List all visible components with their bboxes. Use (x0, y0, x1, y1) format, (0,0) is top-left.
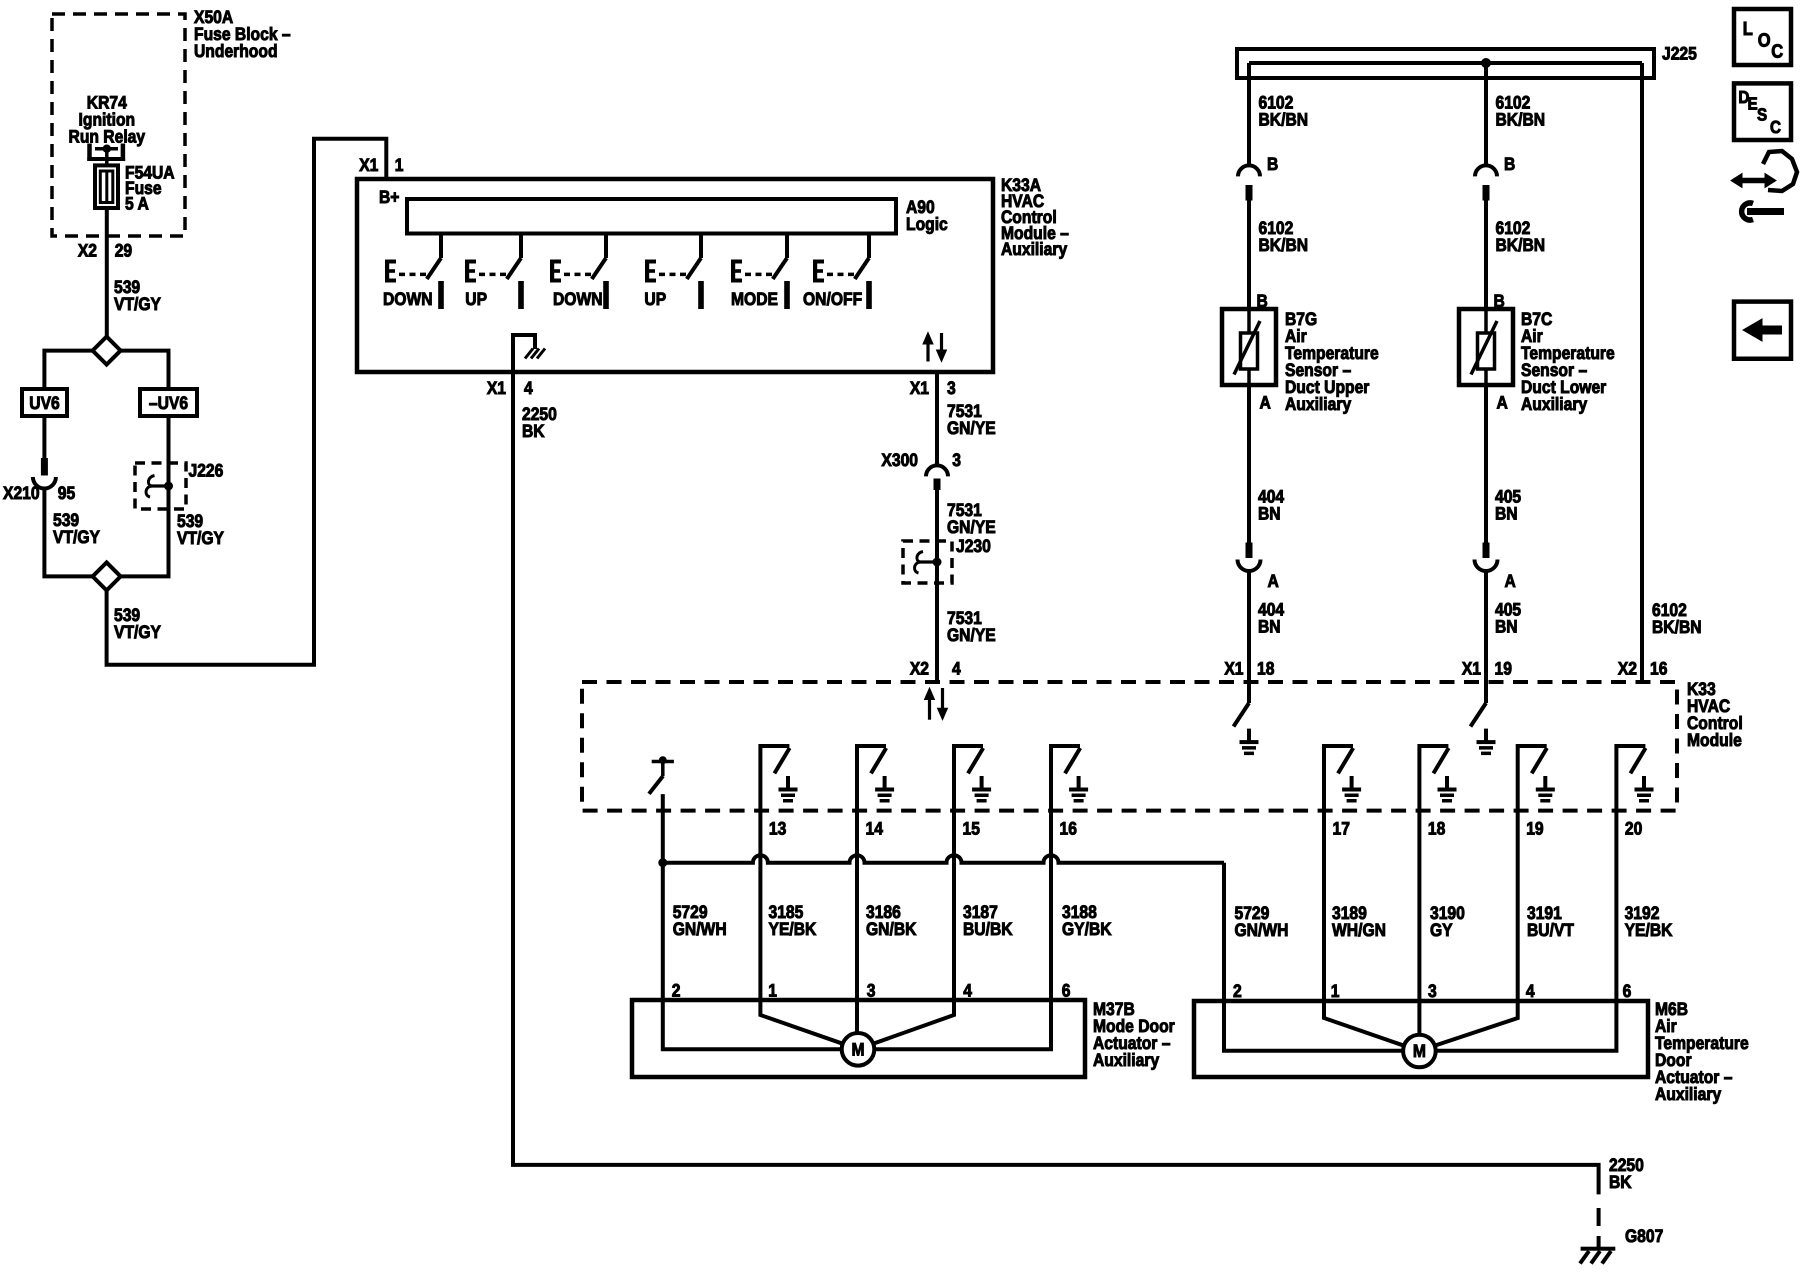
svg-text:S: S (1757, 105, 1767, 125)
svg-text:16: 16 (1650, 658, 1667, 678)
svg-text:E: E (1748, 94, 1758, 114)
svg-text:A: A (1497, 392, 1508, 412)
svg-text:WH/GN: WH/GN (1332, 920, 1386, 940)
svg-text:B+: B+ (379, 187, 399, 207)
svg-text:B: B (1504, 154, 1515, 174)
svg-text:19: 19 (1495, 658, 1512, 678)
svg-text:C: C (1770, 117, 1781, 137)
svg-text:VT/GY: VT/GY (114, 294, 161, 314)
svg-text:BK: BK (1609, 1172, 1632, 1192)
svg-text:BK/BN: BK/BN (1496, 235, 1546, 255)
svg-text:GN/YE: GN/YE (947, 517, 996, 537)
svg-text:4: 4 (524, 378, 533, 398)
svg-text:2: 2 (1233, 981, 1242, 1001)
svg-text:Auxiliary: Auxiliary (1655, 1084, 1721, 1104)
svg-text:16: 16 (1060, 818, 1077, 838)
svg-text:18: 18 (1428, 818, 1445, 838)
svg-text:J225: J225 (1662, 43, 1697, 63)
svg-text:G807: G807 (1625, 1226, 1663, 1246)
svg-text:13: 13 (769, 818, 786, 838)
svg-text:GN/WH: GN/WH (673, 919, 727, 939)
svg-text:UP: UP (465, 289, 487, 309)
svg-text:O: O (1758, 31, 1771, 52)
svg-text:A: A (1505, 571, 1516, 591)
svg-text:14: 14 (866, 818, 883, 838)
svg-text:M: M (851, 1039, 864, 1059)
svg-text:5 A: 5 A (125, 194, 149, 214)
svg-text:3: 3 (952, 450, 961, 470)
svg-text:18: 18 (1257, 658, 1274, 678)
svg-text:VT/GY: VT/GY (177, 528, 224, 548)
svg-text:1: 1 (395, 155, 404, 175)
svg-text:17: 17 (1333, 818, 1350, 838)
svg-text:VT/GY: VT/GY (53, 527, 100, 547)
svg-text:3: 3 (867, 980, 876, 1000)
svg-text:95: 95 (58, 483, 75, 503)
svg-text:UP: UP (644, 289, 666, 309)
svg-text:X2: X2 (78, 241, 97, 261)
svg-text:3: 3 (1428, 981, 1437, 1001)
svg-text:BU/BK: BU/BK (963, 919, 1013, 939)
svg-text:X1: X1 (359, 155, 378, 175)
svg-text:UV6: UV6 (29, 393, 59, 413)
svg-text:M: M (1413, 1041, 1426, 1061)
svg-text:A: A (1260, 392, 1271, 412)
svg-text:X1: X1 (1224, 658, 1243, 678)
svg-text:Underhood: Underhood (194, 41, 278, 61)
svg-text:BN: BN (1258, 616, 1281, 636)
svg-text:MODE: MODE (731, 289, 778, 309)
svg-text:29: 29 (115, 241, 132, 261)
svg-text:GN/YE: GN/YE (947, 418, 996, 438)
svg-text:4: 4 (952, 658, 961, 678)
svg-text:X210: X210 (3, 483, 40, 503)
svg-text:X300: X300 (881, 450, 918, 470)
svg-text:J230: J230 (956, 536, 991, 556)
svg-text:BN: BN (1258, 503, 1281, 523)
svg-text:Auxiliary: Auxiliary (1521, 394, 1587, 414)
svg-text:L: L (1743, 19, 1753, 40)
svg-text:X2: X2 (910, 658, 929, 678)
svg-text:X1: X1 (487, 378, 506, 398)
svg-text:BK: BK (522, 421, 545, 441)
svg-text:Logic: Logic (906, 214, 948, 234)
svg-text:BN: BN (1495, 503, 1518, 523)
svg-text:19: 19 (1526, 818, 1543, 838)
svg-text:–UV6: –UV6 (149, 393, 188, 413)
svg-text:BK/BN: BK/BN (1496, 109, 1546, 129)
svg-text:6: 6 (1623, 981, 1632, 1001)
svg-text:Auxiliary: Auxiliary (1285, 394, 1351, 414)
svg-text:DOWN: DOWN (383, 289, 433, 309)
svg-text:GY: GY (1430, 920, 1453, 940)
svg-text:Auxiliary: Auxiliary (1093, 1050, 1159, 1070)
svg-text:Run Relay: Run Relay (69, 127, 146, 147)
svg-text:DOWN: DOWN (553, 289, 603, 309)
svg-text:GN/YE: GN/YE (947, 625, 996, 645)
svg-text:4: 4 (1526, 981, 1535, 1001)
svg-text:B: B (1267, 154, 1278, 174)
svg-text:1: 1 (1331, 981, 1340, 1001)
svg-text:ON/OFF: ON/OFF (803, 289, 862, 309)
svg-text:BU/VT: BU/VT (1527, 920, 1574, 940)
svg-text:1: 1 (768, 980, 777, 1000)
svg-text:J226: J226 (189, 460, 224, 480)
svg-text:GN/BK: GN/BK (866, 919, 916, 939)
svg-text:3: 3 (947, 378, 956, 398)
svg-text:X1: X1 (910, 378, 929, 398)
svg-text:BN: BN (1495, 616, 1518, 636)
svg-text:X1: X1 (1462, 658, 1481, 678)
svg-text:BK/BN: BK/BN (1259, 109, 1309, 129)
svg-text:GY/BK: GY/BK (1062, 919, 1112, 939)
svg-text:X2: X2 (1618, 658, 1637, 678)
svg-text:GN/WH: GN/WH (1235, 920, 1289, 940)
svg-text:A: A (1268, 571, 1279, 591)
svg-text:YE/BK: YE/BK (1625, 920, 1673, 940)
svg-text:VT/GY: VT/GY (114, 622, 161, 642)
svg-text:BK/BN: BK/BN (1259, 235, 1309, 255)
svg-text:15: 15 (963, 818, 980, 838)
svg-text:YE/BK: YE/BK (769, 919, 817, 939)
svg-text:Auxiliary: Auxiliary (1001, 239, 1067, 259)
svg-text:Module: Module (1687, 730, 1742, 750)
svg-text:4: 4 (963, 980, 972, 1000)
svg-text:C: C (1771, 42, 1783, 63)
svg-text:20: 20 (1625, 818, 1642, 838)
svg-text:6: 6 (1062, 980, 1071, 1000)
svg-text:BK/BN: BK/BN (1652, 617, 1702, 637)
svg-text:2: 2 (672, 980, 681, 1000)
